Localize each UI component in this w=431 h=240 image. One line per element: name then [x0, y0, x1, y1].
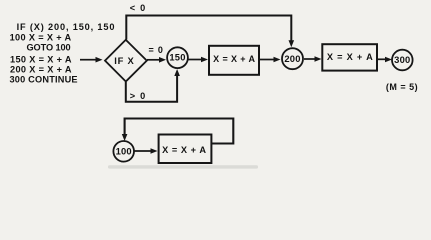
svg-text:100: 100 — [116, 146, 132, 157]
process box 3 X = X + A — [159, 135, 212, 164]
node circle 300 — [392, 50, 413, 71]
wire: circle 100 to box 3 — [134, 148, 157, 154]
svg-text:300: 300 — [394, 54, 410, 65]
svg-text:200: 200 — [284, 53, 300, 64]
svg-text:150 X = X + A: 150 X = X + A — [10, 54, 72, 64]
svg-text:> 0: > 0 — [130, 91, 147, 101]
wire: circle 150 to box 1 — [189, 57, 209, 63]
scan smudge artifact — [108, 165, 258, 168]
wire: box 1 to circle 200 — [260, 57, 281, 63]
svg-text:< 0: < 0 — [130, 3, 147, 13]
svg-text:100 X = X + A: 100 X = X + A — [10, 33, 72, 43]
decision diamond IF X — [105, 40, 147, 82]
svg-text:X = X + A: X = X + A — [327, 52, 374, 62]
wire: less-than branch from diamond top to circle 200 — [126, 16, 294, 48]
svg-text:200 X = X + A: 200 X = X + A — [10, 65, 72, 75]
svg-text:GOTO 100: GOTO 100 — [27, 42, 71, 52]
svg-text:300 CONTINUE: 300 CONTINUE — [10, 74, 78, 84]
wire: diamond to circle 150 — [147, 57, 166, 63]
svg-text:IF X: IF X — [114, 55, 134, 66]
svg-text:(M = 5): (M = 5) — [386, 82, 418, 92]
process box 2 X = X + A — [322, 44, 377, 70]
svg-text:IF (X) 200, 150, 150: IF (X) 200, 150, 150 — [17, 22, 116, 32]
wire: box 2 to circle 300 — [378, 57, 392, 63]
wire: loop from box 3 back to circle 100 — [122, 119, 234, 144]
process box 1 X = X + A — [209, 46, 259, 75]
code listing text — [10, 22, 116, 85]
svg-text:X = X + A: X = X + A — [162, 145, 206, 155]
svg-text:X = X + A: X = X + A — [213, 54, 255, 64]
svg-text:= 0: = 0 — [149, 45, 164, 55]
node circle 150 — [167, 47, 188, 68]
svg-text:150: 150 — [169, 52, 185, 63]
wire: code to decision diamond — [80, 57, 103, 63]
wire: circle 200 to box 2 — [304, 56, 322, 62]
node circle 200 — [282, 48, 303, 69]
node circle 100 — [113, 141, 134, 162]
wire: greater-than branch from diamond bottom to circle 150 — [126, 69, 180, 102]
